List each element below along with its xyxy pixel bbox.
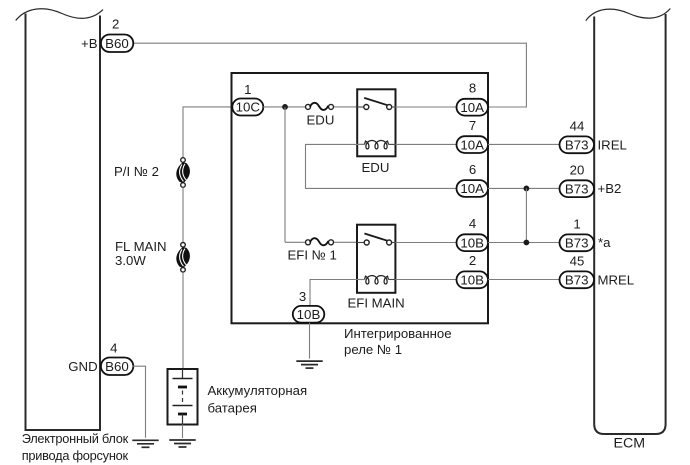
svg-text:10B: 10B (460, 235, 484, 250)
wire battery to ground (182, 425, 184, 439)
label Интегрированное реле № 1 (344, 326, 452, 357)
ground (pin 3) (296, 361, 322, 368)
svg-text:45: 45 (570, 253, 585, 268)
connector 10A pin 6 (457, 180, 489, 197)
svg-text:MREL: MREL (598, 272, 635, 287)
junction node (10C branch) (282, 104, 288, 110)
relay EDU (357, 89, 395, 156)
svg-text:4: 4 (469, 216, 476, 231)
ECM block (right bar) (594, 14, 665, 434)
wire EFI fuse to relay EFI MAIN (334, 241, 357, 243)
svg-text:EFI № 1: EFI № 1 (288, 247, 337, 262)
svg-text:44: 44 (570, 118, 585, 133)
svg-text:B73: B73 (565, 235, 589, 250)
svg-text:10C: 10C (236, 100, 261, 115)
svg-text:3.0W: 3.0W (115, 253, 146, 268)
connector 10B pin 3 (293, 306, 325, 323)
wire relay EDU coil to pin 7 (396, 143, 457, 145)
svg-text:3: 3 (299, 289, 306, 304)
fusible link P/I No 2 (176, 158, 190, 188)
connector B73 (+B2) (560, 180, 595, 197)
svg-text:10A: 10A (460, 100, 484, 115)
EDU unit block (left bar) (26, 14, 101, 431)
label FL MAIN 3.0W (115, 239, 167, 268)
fusible link FL MAIN 3.0W (176, 243, 190, 273)
connector B73 (IREL) (560, 136, 595, 153)
connector B60 (+B) (101, 35, 133, 53)
svg-text:батарея: батарея (208, 401, 257, 416)
svg-text:FL MAIN: FL MAIN (115, 239, 167, 254)
wire relay EFI coil left to pin 3 (310, 280, 365, 306)
svg-text:EFI MAIN: EFI MAIN (348, 296, 405, 311)
ground (GND B60) (132, 440, 158, 447)
connector 10C (232, 99, 263, 116)
fuse EFI No 1 (285, 238, 334, 245)
wire pin 4 to B73 *a (488, 242, 560, 244)
svg-text:IREL: IREL (598, 137, 627, 152)
connector 10A pin 7 (457, 136, 489, 153)
svg-text:B60: B60 (105, 36, 129, 51)
wire +B B60 to node over pin 8 (133, 43, 527, 107)
ECM break wave (top) (586, 9, 671, 21)
svg-text:*a: *a (598, 235, 611, 250)
wire between fusible links (182, 187, 184, 242)
svg-text:10A: 10A (460, 181, 484, 196)
svg-text:ECM: ECM (614, 436, 646, 452)
svg-text:Электронный блок: Электронный блок (22, 431, 129, 446)
svg-text:10A: 10A (460, 137, 484, 152)
svg-text:1: 1 (244, 82, 251, 97)
svg-text:+B2: +B2 (598, 181, 622, 196)
svg-text:10B: 10B (460, 273, 484, 288)
svg-text:B60: B60 (105, 359, 129, 374)
wire relay EFI coil to pin 2 (395, 279, 456, 281)
wire pin 6 to B73 +B2 (488, 187, 560, 189)
svg-text:EDU: EDU (362, 160, 390, 175)
svg-text:7: 7 (469, 118, 476, 133)
label Электронный блок привода форсунок (22, 431, 129, 463)
wire pin 3 to ground (309, 323, 311, 359)
svg-text:Аккумуляторная: Аккумуляторная (208, 383, 308, 398)
svg-text:6: 6 (469, 162, 476, 177)
svg-text:8: 8 (469, 81, 476, 96)
svg-text:B73: B73 (565, 137, 589, 152)
svg-text:4: 4 (110, 341, 117, 356)
svg-text:привода форсунок: привода форсунок (22, 448, 129, 463)
wire EDU fuse to relay (334, 106, 357, 108)
wire relay EFI switch to pin 4 (395, 242, 456, 244)
junction node (+B2 branch) (524, 186, 530, 192)
connector 10B pin 4 (457, 234, 489, 251)
connector B73 (*a) (560, 234, 595, 251)
label Аккумуляторная батарея (208, 383, 308, 416)
integrated relay No 1 box (232, 73, 489, 323)
svg-text:GND: GND (68, 359, 97, 374)
wire EDU coil left to pin 6 (306, 144, 457, 188)
ground (battery) (169, 440, 195, 447)
connector B60 (GND) (101, 358, 133, 376)
svg-text:P/I № 2: P/I № 2 (114, 164, 159, 179)
svg-text:10B: 10B (297, 307, 321, 322)
wire FL MAIN to battery (182, 272, 184, 369)
wire pin 7 to B73 IREL (488, 143, 560, 145)
junction node (*a branch) (524, 240, 530, 246)
connector 10B pin 2 (457, 271, 489, 288)
wire relay EDU switch to pin 8 (396, 106, 457, 108)
svg-text:B73: B73 (565, 273, 589, 288)
wire pin 2 to B73 MREL (488, 279, 560, 281)
svg-text:2: 2 (469, 253, 476, 268)
battery (Аккумуляторная батарея) (168, 369, 198, 425)
relay EFI MAIN (357, 225, 395, 293)
svg-text:1: 1 (573, 216, 580, 231)
wire 10C to EDU fuse (263, 106, 305, 108)
svg-text:Интегрированное: Интегрированное (344, 326, 452, 341)
svg-text:реле № 1: реле № 1 (344, 342, 402, 357)
svg-text:+B: +B (81, 36, 98, 51)
svg-text:20: 20 (570, 162, 585, 177)
wire node down to EFI No1 fuse (284, 107, 286, 242)
svg-text:EDU: EDU (307, 112, 335, 127)
connector 10A pin 8 (457, 99, 489, 116)
fuse EDU (306, 103, 334, 110)
wire GND B60 to ground (133, 366, 146, 438)
wire feed from fuse chain into 10C (183, 107, 232, 158)
connector B73 (MREL) (560, 271, 595, 288)
EDU unit break wave (top) (16, 9, 103, 21)
svg-text:2: 2 (112, 17, 119, 32)
wire +B2 node down to *a node (525, 188, 527, 242)
svg-text:B73: B73 (565, 181, 589, 196)
